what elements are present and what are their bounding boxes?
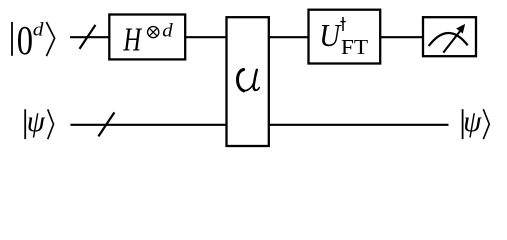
svg-text:d: d	[33, 19, 45, 40]
bundle slash top wire	[80, 25, 96, 49]
wire top: H box to U box	[184, 36, 227, 38]
wire bottom: psi ket to U box	[70, 124, 227, 126]
ket rangle	[48, 109, 54, 139]
ket rangle	[46, 22, 54, 56]
ket bar	[462, 109, 464, 139]
ket bar	[11, 22, 13, 56]
svg-text:ψ: ψ	[27, 106, 46, 138]
wire top: ket to H box	[70, 36, 110, 38]
measurement meter box	[423, 17, 476, 56]
gate H label	[123, 22, 143, 59]
svg-text:H: H	[123, 22, 143, 59]
gate script-U label	[238, 70, 260, 91]
gate H superscript d	[162, 20, 172, 41]
tensor product X	[149, 28, 157, 36]
dagger superscript	[340, 17, 345, 31]
ket 0	[17, 19, 33, 64]
ket bar	[24, 109, 26, 139]
wire top: U box to UFT box	[268, 36, 309, 38]
gate U (multi-qubit) box	[227, 17, 269, 146]
meter needle arrowhead	[456, 24, 465, 34]
ket rangle	[483, 109, 489, 139]
meter arc	[429, 33, 468, 46]
node |psi> output ket	[463, 106, 490, 139]
svg-text:0: 0	[17, 19, 33, 64]
ket psi	[463, 106, 482, 138]
wire bottom: U box to output ket	[268, 124, 449, 126]
subscript FT	[341, 35, 369, 59]
node |0^d> input ket	[12, 19, 55, 64]
bundle slash bottom wire	[98, 112, 114, 136]
meter needle	[443, 31, 460, 53]
gate U label	[319, 18, 342, 53]
tensor product circle	[148, 26, 159, 37]
svg-text:U: U	[319, 18, 342, 53]
svg-text:ψ: ψ	[463, 106, 482, 138]
node |psi> input ket	[25, 106, 53, 139]
gate H^(tensor d) box	[109, 15, 185, 60]
ket psi	[27, 106, 46, 138]
ket superscript d	[33, 19, 45, 40]
svg-text:d: d	[162, 20, 172, 41]
svg-text:FT: FT	[341, 35, 369, 59]
gate UFT-dagger box	[309, 10, 381, 64]
wire top: UFT box to meter	[379, 36, 424, 38]
